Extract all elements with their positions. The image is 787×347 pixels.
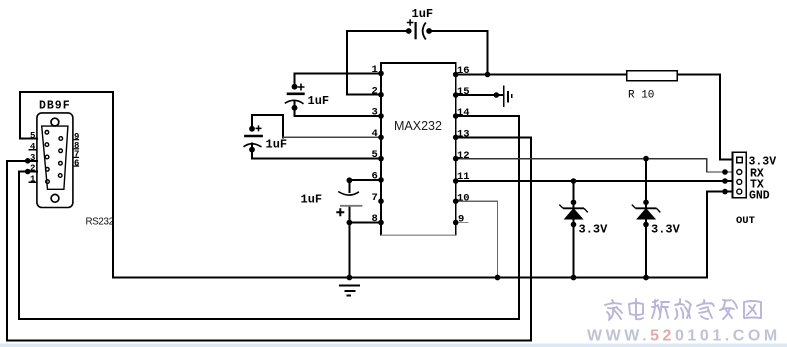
node OUT TX bbox=[722, 178, 728, 184]
resistor R1 "R 10" bbox=[627, 71, 677, 102]
wire pin10 to ground rail bbox=[456, 201, 498, 277]
svg-text:12: 12 bbox=[457, 150, 470, 162]
node D1 top bbox=[571, 178, 577, 184]
wire pin15 to earth bbox=[456, 94, 503, 96]
node C2 bottom bbox=[249, 147, 255, 153]
DB9 D-sub face bbox=[42, 126, 68, 189]
wire zener D1 branch bbox=[573, 181, 575, 278]
node OUT RX bbox=[722, 169, 728, 175]
node gnd rail pin10 bbox=[495, 275, 501, 281]
node pin5 bbox=[378, 156, 384, 162]
node pin13 bbox=[453, 135, 459, 141]
capacitor C3 1uF (top, pins 2-16) bbox=[407, 7, 433, 40]
svg-text:10: 10 bbox=[457, 192, 470, 204]
bottom strip bbox=[0, 344, 787, 347]
node pin4 bbox=[378, 135, 384, 141]
svg-text:3: 3 bbox=[372, 107, 378, 119]
wire C2 bottom to pin5 bbox=[252, 144, 381, 159]
svg-text:14: 14 bbox=[457, 107, 470, 119]
node OUT GND bbox=[722, 189, 728, 195]
node pin12 bbox=[453, 156, 459, 162]
DB9 body bbox=[37, 113, 73, 208]
svg-text:DB9F: DB9F bbox=[39, 100, 71, 113]
node DB9 pin3 bbox=[25, 158, 31, 164]
node D2 top bbox=[643, 156, 649, 162]
node C1 top bbox=[292, 84, 298, 90]
wire DB9 pin4 stub bbox=[29, 149, 37, 151]
svg-text:4: 4 bbox=[372, 128, 378, 140]
node D1 cathode bbox=[571, 200, 577, 206]
svg-text:GND: GND bbox=[749, 190, 770, 203]
node pin15 gnd bbox=[494, 92, 500, 98]
capacitor C4 1uF (pin6 - gnd) bbox=[301, 192, 363, 217]
wire pin16 V+ rail to resistor bbox=[456, 74, 627, 76]
svg-text:5: 5 bbox=[30, 131, 35, 141]
DB9 socket holes right column bbox=[58, 137, 62, 178]
wire zener D2 branch bbox=[645, 159, 647, 278]
svg-text:4: 4 bbox=[30, 142, 36, 152]
diode D2 zener 3.3V bbox=[632, 205, 681, 237]
wire C4 bottom to ground rail bbox=[348, 206, 350, 278]
wire jog to pin4 bbox=[283, 136, 381, 138]
svg-text:3.3V: 3.3V bbox=[651, 223, 681, 237]
svg-text:1uF: 1uF bbox=[308, 94, 330, 108]
svg-text:RS232: RS232 bbox=[86, 217, 114, 228]
svg-text:6: 6 bbox=[372, 171, 378, 183]
connector J2 OUT header bbox=[733, 152, 777, 227]
svg-text:2: 2 bbox=[372, 85, 378, 97]
node C4 top bbox=[347, 177, 353, 183]
node pin7 bbox=[378, 198, 384, 204]
node pin3 bbox=[378, 113, 384, 119]
diode D1 zener 3.3V bbox=[559, 205, 608, 237]
node pin2 bbox=[378, 92, 384, 98]
svg-text:WWW.520101.COM: WWW.520101.COM bbox=[587, 328, 781, 345]
node C4 pin8 junction bbox=[347, 220, 353, 226]
node pin15 bbox=[453, 92, 459, 98]
node DB9 pin2 bbox=[25, 169, 31, 175]
wire pin9 stub bbox=[456, 222, 468, 224]
svg-text:1: 1 bbox=[30, 175, 36, 185]
ground (sideways, pin15) bbox=[504, 86, 512, 108]
svg-text:3: 3 bbox=[30, 153, 35, 163]
node C3 right bbox=[426, 28, 432, 34]
svg-text:3.3V: 3.3V bbox=[579, 223, 609, 237]
DB9 top mounting hole bbox=[51, 118, 59, 126]
capacitor C2 1uF (pins 4-5) bbox=[244, 125, 288, 151]
svg-text:MAX232: MAX232 bbox=[394, 119, 442, 133]
svg-text:2: 2 bbox=[30, 164, 35, 174]
svg-text:OUT: OUT bbox=[736, 215, 755, 227]
node pin6 bbox=[378, 177, 384, 183]
wire pin12 RX to OUT bbox=[456, 159, 737, 172]
svg-text:15: 15 bbox=[457, 86, 470, 98]
svg-text:R 10: R 10 bbox=[628, 90, 654, 102]
capacitor C1 1uF (pins 1-3) bbox=[285, 84, 329, 109]
wire resistor to OUT 3.3V bbox=[677, 75, 733, 160]
node gnd rail D1 bbox=[571, 275, 577, 281]
node D2 cathode bbox=[643, 200, 649, 206]
wire C2 top jog bbox=[252, 115, 283, 137]
node gnd rail D2 bbox=[643, 275, 649, 281]
DB9 socket holes left column bbox=[45, 131, 49, 184]
wire C3 right to pin16 junction bbox=[429, 31, 487, 75]
svg-text:6: 6 bbox=[74, 158, 79, 168]
svg-text:13: 13 bbox=[457, 129, 470, 141]
IC U1 MAX232 bbox=[381, 63, 456, 235]
wire ground rail bbox=[113, 277, 707, 279]
svg-text:1uF: 1uF bbox=[301, 193, 323, 207]
svg-text:11: 11 bbox=[457, 171, 470, 183]
connector J1 DB9F bbox=[30, 100, 114, 228]
ground (earth under C4) bbox=[339, 285, 360, 295]
node pin14 bbox=[453, 113, 459, 119]
node pin9 bbox=[453, 220, 459, 226]
svg-text:16: 16 bbox=[457, 65, 470, 77]
node D2 anode bbox=[643, 222, 649, 228]
svg-text:1uF: 1uF bbox=[412, 7, 434, 21]
node C1 bottom bbox=[292, 105, 298, 111]
wire DB9 pin5 loop over top to ground rail bbox=[20, 92, 113, 278]
node pin1 bbox=[378, 71, 384, 77]
svg-text:1: 1 bbox=[372, 64, 378, 76]
wire pin13 long loop to DB9 pin3 bbox=[7, 137, 531, 340]
node C2 top bbox=[249, 126, 255, 132]
node C3 left bbox=[406, 28, 412, 34]
node gnd rail C4 bbox=[347, 275, 353, 281]
wire OUT GND riser bbox=[707, 192, 737, 278]
wire pin11 TX to OUT bbox=[456, 180, 737, 182]
svg-text:8: 8 bbox=[372, 213, 378, 225]
svg-text:5: 5 bbox=[372, 149, 378, 161]
wire pin1 to C1 top bbox=[295, 73, 382, 86]
svg-text:1uF: 1uF bbox=[266, 138, 288, 152]
svg-text:7: 7 bbox=[372, 192, 378, 204]
node pin8 bbox=[378, 220, 384, 226]
node pin11 bbox=[453, 178, 459, 184]
wire C1 bottom to pin3 bbox=[295, 101, 382, 116]
wire pin8 bbox=[349, 222, 381, 224]
svg-text:9: 9 bbox=[458, 214, 464, 226]
node pin16 bbox=[453, 72, 459, 78]
wire pin2 to V+ riser bbox=[347, 31, 409, 95]
DB9 bottom mounting hole bbox=[51, 194, 59, 202]
wire pin14 long loop to DB9 pin2 bbox=[19, 116, 519, 319]
node D1 anode bbox=[571, 222, 577, 228]
wire DB9 pin1 stub bbox=[29, 181, 37, 183]
node V+ junction bbox=[485, 72, 491, 78]
node pin10 bbox=[453, 198, 459, 204]
wire pin6 to C4 top bbox=[349, 180, 381, 192]
watermark chinese script (drawn strokes) bbox=[605, 299, 761, 320]
